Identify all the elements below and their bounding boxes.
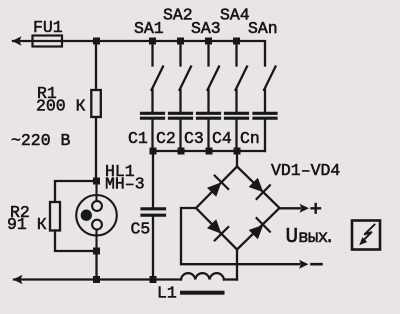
svg-text:C2: C2 bbox=[156, 129, 176, 148]
svg-text:~220 В: ~220 В bbox=[11, 131, 71, 150]
wire: bridge right vertex to + output bbox=[280, 207, 301, 209]
switch SA3 bbox=[208, 43, 220, 113]
wire: C1 to bus bbox=[151, 120, 153, 151]
svg-text:VD1–VD4: VD1–VD4 bbox=[271, 161, 340, 180]
svg-text:Uвых.: Uвых. bbox=[286, 226, 335, 249]
switch SA1 bbox=[152, 43, 164, 113]
node: SA2 top bbox=[177, 38, 184, 45]
node: neutral/HL1 junction bbox=[93, 276, 100, 283]
svg-text:SAn: SAn bbox=[248, 19, 278, 38]
capacitor C1 bbox=[142, 113, 164, 118]
symbol: boxed lightning arrow bbox=[352, 221, 380, 250]
mains input arrow (top phase terminal) bbox=[12, 36, 22, 45]
svg-text:L1: L1 bbox=[157, 284, 177, 303]
node: phase/R1 junction bbox=[93, 38, 100, 45]
switch SAn bbox=[264, 42, 276, 113]
node: neutral/C5 junction bbox=[150, 276, 157, 283]
wire: bridge top vertex to cap bus bbox=[236, 151, 238, 167]
svg-text:С5: С5 bbox=[131, 220, 151, 239]
plus sign bbox=[312, 204, 321, 213]
node: SA3 top bbox=[205, 38, 212, 45]
capacitor C4 bbox=[226, 113, 248, 118]
wire: phase input to fuse bbox=[13, 40, 33, 42]
resistor R2 bbox=[50, 181, 97, 251]
wire: top bus to switches bbox=[97, 40, 266, 42]
arrow: - output bbox=[299, 260, 309, 269]
fuse FU1 bbox=[33, 36, 63, 47]
svg-text:91 К: 91 К bbox=[7, 215, 47, 234]
capacitor C3 bbox=[198, 113, 220, 118]
node: bus/C5 junction bbox=[150, 148, 157, 155]
node: bus C3 bbox=[206, 148, 213, 155]
capacitor Cn bbox=[254, 113, 276, 118]
svg-text:SA1: SA1 bbox=[134, 19, 164, 38]
wire: HL1 bottom to neutral bus bbox=[95, 251, 97, 280]
wire: C2 to bus bbox=[179, 120, 181, 151]
resistor R1 bbox=[91, 43, 101, 181]
diode VD3 (bottom-left edge) bbox=[196, 208, 237, 250]
node: HL1 bottom junction bbox=[93, 248, 100, 255]
wire: bridge left vertex to - output bbox=[181, 208, 300, 264]
svg-text:C4: C4 bbox=[212, 129, 232, 148]
wire: C3 to bus bbox=[207, 120, 209, 151]
svg-text:SA3: SA3 bbox=[191, 19, 221, 38]
diode VD1 (top-left edge) bbox=[196, 167, 237, 209]
inductor L1 bbox=[181, 273, 237, 279]
core bar L1 bbox=[180, 291, 225, 295]
wire: C4 to bus bbox=[235, 120, 237, 151]
switch SA4 bbox=[236, 43, 248, 113]
svg-text:SA4: SA4 bbox=[220, 6, 250, 25]
node: bus C2 bbox=[178, 148, 185, 155]
svg-text:C1: C1 bbox=[128, 129, 148, 148]
svg-text:C3: C3 bbox=[184, 129, 204, 148]
switch SA2 bbox=[180, 43, 192, 113]
arrow: + output bbox=[300, 204, 310, 213]
diode VD4 (bottom-right edge) bbox=[237, 208, 280, 250]
neon lamp HL1 bbox=[76, 184, 117, 248]
svg-text:МН–3: МН–3 bbox=[105, 175, 145, 194]
wire: neutral bus bbox=[14, 278, 181, 280]
wire: bridge bottom vertex down to L1 bbox=[236, 250, 238, 280]
wire: capacitor bottom bus bbox=[153, 150, 266, 152]
node: SA1 top bbox=[149, 38, 156, 45]
node: SA4 top bbox=[233, 38, 240, 45]
node: bus/bridge junction bbox=[234, 148, 241, 155]
capacitor C2 bbox=[170, 113, 192, 118]
svg-text:FU1: FU1 bbox=[33, 18, 63, 37]
node: R1/HL1 junction bbox=[93, 178, 100, 185]
wire: fuse to junction bbox=[62, 40, 97, 42]
diode VD2 (top-right edge) bbox=[237, 167, 280, 209]
svg-text:Cn: Cn bbox=[240, 129, 260, 148]
svg-text:SA2: SA2 bbox=[163, 6, 193, 25]
mains neutral arrow (bottom terminal) bbox=[13, 275, 23, 284]
svg-text:200 К: 200 К bbox=[36, 97, 86, 116]
wire: Cn to bus bbox=[264, 120, 266, 151]
capacitor C5 bbox=[142, 153, 165, 280]
minus sign bbox=[312, 263, 322, 266]
